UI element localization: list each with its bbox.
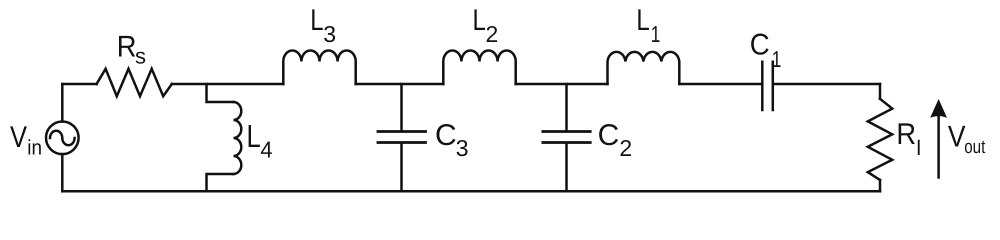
- wire source bottom: [61, 154, 64, 191]
- svg-text:L: L: [473, 4, 486, 37]
- svg-text:V: V: [10, 121, 27, 154]
- resistor R_l: [868, 99, 892, 180]
- svg-text:R: R: [896, 118, 916, 151]
- svg-text:2: 2: [486, 21, 499, 47]
- inductor L2: [443, 50, 515, 84]
- svg-text:R: R: [117, 31, 137, 64]
- wire bottom rail: [62, 190, 880, 193]
- source sine wave: [50, 131, 75, 145]
- svg-text:1: 1: [651, 21, 661, 47]
- wire C2 top: [565, 84, 568, 130]
- svg-text:C: C: [598, 119, 620, 152]
- svg-text:L: L: [636, 4, 649, 37]
- svg-text:3: 3: [456, 135, 469, 161]
- wire top rail from L2 to L1 riser: [516, 83, 608, 86]
- wire top rail from L3 to L2 riser: [356, 83, 444, 86]
- wire top rail from L1 to C1: [679, 83, 761, 86]
- resistor R_s: [97, 69, 172, 96]
- svg-text:1: 1: [772, 46, 782, 72]
- svg-text:V: V: [948, 121, 966, 154]
- capacitor C2 plates: [543, 132, 590, 143]
- V_out arrow head: [930, 99, 947, 118]
- wire source top: [61, 84, 64, 122]
- svg-text:L: L: [310, 4, 323, 37]
- svg-text:in: in: [27, 137, 42, 160]
- inductor L3: [283, 50, 355, 84]
- wire L4 bottom stub: [207, 174, 234, 191]
- svg-text:3: 3: [323, 21, 336, 47]
- svg-text:4: 4: [260, 137, 272, 163]
- svg-text:s: s: [135, 44, 146, 69]
- svg-text:C: C: [750, 29, 770, 62]
- svg-text:out: out: [964, 137, 986, 158]
- wire R_l to bottom rail: [879, 180, 882, 191]
- source V_in circle: [46, 122, 79, 155]
- svg-text:C: C: [435, 119, 457, 152]
- wire C3 top: [400, 84, 403, 130]
- wire C2 bottom: [565, 144, 568, 192]
- wire C3 bottom: [400, 144, 403, 192]
- capacitor C3 plates: [378, 132, 426, 143]
- inductor L4: [234, 102, 242, 174]
- svg-text:l: l: [916, 137, 921, 160]
- wire top rail from C1 to right corner: [774, 83, 880, 86]
- wire top rail left from source to Rs: [62, 83, 96, 86]
- wire L4 top stub: [207, 84, 234, 102]
- svg-text:L: L: [247, 118, 261, 154]
- inductor L1: [608, 52, 680, 84]
- V_out arrow shaft: [937, 112, 940, 178]
- svg-text:2: 2: [619, 135, 632, 161]
- wire top rail from Rs to L3 riser: [172, 83, 283, 86]
- wire right drop to R_l: [879, 84, 882, 99]
- capacitor C1 plates: [762, 62, 773, 110]
